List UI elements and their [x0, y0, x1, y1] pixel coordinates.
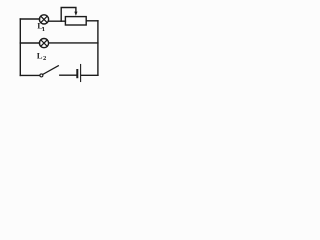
wire: bottom run, left corner to switch — [20, 74, 40, 76]
wire: left vertical — [19, 19, 21, 75]
switch S pivot — [40, 74, 43, 77]
wire: battery to bottom-right corner — [81, 74, 98, 76]
wire: lamp L1 to rheostat body — [48, 20, 65, 22]
lamp L1 — [39, 15, 48, 24]
wire: riser and overhead run to slider — [61, 8, 76, 22]
wire: right vertical — [97, 21, 99, 76]
wire: switch to battery — [60, 74, 76, 76]
battery: negative plate (short thick) — [76, 70, 78, 77]
resistor R (rheostat body) — [65, 17, 86, 25]
wire: middle branch, left vertical to lamp L2 — [20, 42, 39, 44]
wire: rheostat to top-right corner — [86, 20, 98, 22]
wire: top branch, corner to lamp L1 — [20, 18, 39, 20]
rheostat slider arrow — [74, 12, 77, 16]
svg-text:L: L — [37, 50, 43, 60]
lamp L2 — [39, 39, 48, 48]
battery: positive plate (long thin) — [80, 65, 82, 82]
wire: lamp L2 to right vertical — [49, 42, 98, 44]
svg-text:1: 1 — [42, 26, 45, 33]
switch S lever — [43, 66, 59, 75]
